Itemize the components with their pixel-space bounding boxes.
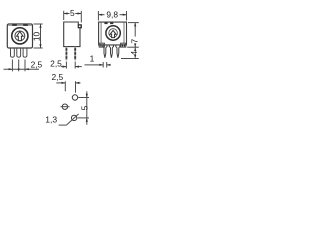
svg-text:10: 10	[32, 32, 42, 42]
svg-text:1,3: 1,3	[45, 114, 57, 124]
svg-text:4: 4	[129, 51, 139, 56]
svg-text:2,5: 2,5	[31, 60, 43, 70]
svg-text:1: 1	[90, 53, 95, 63]
svg-text:7: 7	[130, 38, 140, 43]
svg-text:9,8: 9,8	[106, 9, 118, 19]
svg-text:5: 5	[79, 105, 89, 110]
svg-text:2,5: 2,5	[51, 72, 63, 82]
svg-text:5: 5	[70, 8, 75, 18]
svg-text:2,5: 2,5	[50, 58, 62, 68]
